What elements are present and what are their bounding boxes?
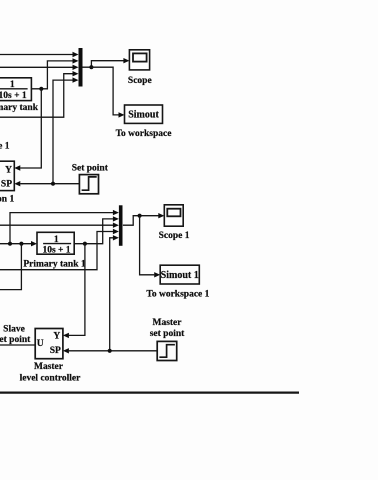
- mux M1: [79, 48, 83, 87]
- junction on master SP wire: [108, 349, 112, 353]
- wire slave set point into port U of master controller: [0, 344, 35, 346]
- svg-text:SP: SP: [50, 346, 61, 356]
- junction on SP wire: [51, 182, 55, 186]
- mux M2: [119, 205, 123, 246]
- transfer function block Primary tank (cropped): [0, 78, 31, 101]
- svg-text:10s + 1: 10s + 1: [0, 91, 27, 101]
- svg-text:10s + 1: 10s + 1: [42, 246, 70, 256]
- separator line at figure bottom: [0, 392, 299, 394]
- transfer function block Primary tank 1: [37, 232, 74, 254]
- wire junction up to mux2 input 1: [10, 213, 114, 244]
- wire mux2 input 3 from left edge: [0, 224, 114, 226]
- to-workspace block Simout: [125, 105, 163, 123]
- wire mux1 output to Simout: [91, 67, 118, 115]
- wire mux1 input 4 from left edge: [0, 74, 74, 118]
- wire level feedback into port Y of controller 1: [20, 89, 41, 168]
- svg-text:Slave: Slave: [3, 325, 25, 335]
- svg-text:on 1: on 1: [0, 194, 14, 204]
- wire mux2 input 4 from left edge: [0, 232, 114, 270]
- svg-text:Y: Y: [5, 166, 12, 176]
- junction on Primary tank output: [39, 87, 43, 91]
- svg-text:Y: Y: [53, 331, 60, 341]
- svg-text:level controller: level controller: [20, 373, 82, 383]
- wire mux1 output to Scope: [83, 61, 124, 67]
- svg-text:mary tank: mary tank: [0, 103, 39, 113]
- svg-text:U: U: [37, 339, 44, 349]
- svg-text:1: 1: [10, 80, 15, 90]
- wire mux1 input 3 from left edge: [0, 66, 74, 68]
- svg-text:Master: Master: [152, 318, 182, 328]
- svg-text:1: 1: [54, 235, 59, 245]
- junction on Primary tank 1 output: [83, 242, 87, 246]
- junction feeding mux2 input 1: [8, 242, 12, 246]
- wire tank 1 level into port Y of master controller: [69, 244, 85, 336]
- wire junction down and out to left edge: [0, 244, 21, 290]
- wire master set point branch to mux2 input 5: [110, 238, 114, 351]
- svg-text:Primary tank 1: Primary tank 1: [23, 260, 86, 270]
- wire Primary tank output to mux1 input 2: [31, 61, 73, 89]
- subsystem block Master level controller: [35, 329, 63, 359]
- junction on mux1 output: [89, 65, 93, 69]
- scope Scope 1: [164, 205, 183, 226]
- junction on mux2 output: [138, 214, 142, 218]
- wire Set point into port SP of controller 1: [20, 183, 79, 185]
- step source Master set point: [157, 341, 177, 360]
- svg-text:Simout: Simout: [128, 110, 159, 121]
- junction feeding lower tap: [19, 242, 23, 246]
- svg-text:set point: set point: [150, 329, 185, 339]
- svg-text:set point: set point: [0, 335, 31, 345]
- svg-text:SP: SP: [1, 180, 12, 190]
- wire mux2 output to Scope 1: [123, 216, 159, 226]
- svg-text:To workspace 1: To workspace 1: [146, 289, 209, 299]
- subsystem block slave controller 1 (cropped): [0, 161, 14, 190]
- scope Scope: [129, 50, 149, 70]
- wire mux2 output down to Simout 1: [140, 216, 155, 275]
- svg-text:Set point: Set point: [72, 163, 109, 173]
- svg-text:e 1: e 1: [0, 142, 10, 152]
- wire mux1 input 1 from left edge: [0, 54, 74, 56]
- to-workspace block Simout 1: [160, 265, 199, 284]
- wire Primary tank 1 output to mux2 input 2: [74, 219, 114, 244]
- wire control signal into Primary tank 1: [0, 243, 32, 245]
- wire Master set point into port SP of master controller: [69, 350, 157, 352]
- step source Set point: [79, 175, 98, 194]
- svg-text:To workspace: To workspace: [116, 129, 172, 139]
- wire set point branch to mux1 input 5: [53, 80, 74, 184]
- svg-text:Scope: Scope: [128, 76, 152, 86]
- svg-text:Master: Master: [34, 362, 64, 372]
- svg-text:Scope 1: Scope 1: [159, 231, 190, 241]
- svg-text:Simout 1: Simout 1: [161, 270, 199, 281]
